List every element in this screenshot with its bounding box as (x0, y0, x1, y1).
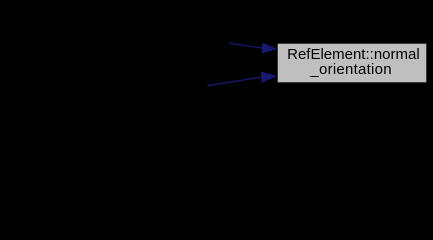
call graph canvas (0, 0, 433, 133)
node RefElement::normal_orientation (277, 43, 427, 83)
svg-text:_orientation: _orientation (309, 61, 391, 78)
wire: edge 2 from hidden caller box to node (207, 72, 276, 86)
wire: edge 1 from hidden caller box to node (228, 43, 277, 53)
